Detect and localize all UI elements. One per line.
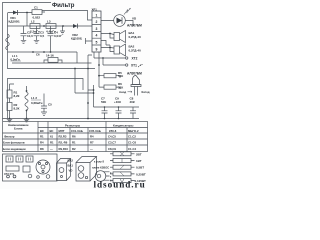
inductor L2 box: [30, 24, 40, 29]
capacitor C3: [34, 26, 40, 40]
svg-text:плате КЗВОС: плате КЗВОС: [92, 165, 109, 169]
svg-text:R2,R3: R2,R3: [59, 135, 67, 139]
svg-text:4: 4: [96, 34, 98, 38]
svg-text:40К: 40К: [130, 100, 135, 104]
transistor pinout drawing: [95, 171, 109, 182]
speaker cabinet big: [76, 163, 90, 182]
svg-text:С3,С7: С3,С7: [108, 141, 116, 145]
ground: [60, 26, 65, 34]
svg-text:С1: С1: [34, 6, 38, 10]
component pad: [16, 156, 23, 162]
svg-text:R7: R7: [90, 141, 94, 145]
svg-text:—: —: [50, 147, 53, 151]
power legend resistor 0.25W: [110, 172, 135, 176]
svg-text:2,2мГн: 2,2мГн: [30, 29, 40, 33]
svg-text:С1,С2: С1,С2: [128, 135, 136, 139]
svg-text:0,2ГД-40: 0,2ГД-40: [129, 35, 142, 39]
power legend resistor 0.5W: [110, 165, 135, 169]
svg-text:ХТ1 „+”: ХТ1 „+”: [131, 64, 143, 68]
capacitor C2: [21, 26, 27, 40]
svg-text:0,2ГД-40: 0,2ГД-40: [129, 49, 142, 53]
wire block1 lower rail: [12, 62, 92, 64]
wire L4 leads: [44, 60, 62, 63]
wire top inner: [10, 84, 15, 90]
mount hole: [37, 176, 40, 179]
svg-text:5: 5: [96, 41, 98, 45]
svg-text:к: к: [110, 175, 112, 178]
node dot: [43, 25, 45, 27]
speaker cabinet small: [57, 163, 67, 181]
LED arrows: [124, 8, 131, 15]
capacitor C7 flat: [6, 166, 19, 171]
table parts list: [3, 122, 148, 152]
resistor R6: [104, 85, 116, 89]
svg-text:R4: R4: [90, 135, 94, 139]
capacitor C5: [41, 94, 47, 113]
svg-text:0,25ВТ: 0,25ВТ: [136, 172, 146, 176]
ground left R chain: [7, 119, 12, 122]
svg-text:Анод: Анод: [119, 90, 126, 94]
diode VD1: [13, 10, 18, 15]
lower right bottom rail: [3, 118, 140, 120]
pin numbers: [96, 13, 98, 51]
resistor R5: [104, 74, 116, 78]
svg-text:С4,С5: С4,С5: [108, 135, 116, 139]
svg-text:МЛТ: МЛТ: [59, 129, 65, 133]
inductor L3 box: [46, 24, 56, 29]
svg-text:+10К: +10К: [114, 100, 121, 104]
svg-text:Блок индикации: Блок индикации: [3, 147, 26, 151]
svg-text:—: —: [90, 147, 93, 151]
svg-text:Конденсаторы: Конденсаторы: [113, 124, 134, 128]
svg-text:к узлу 8: к узлу 8: [94, 160, 104, 164]
svg-text:ВА2: ВА2: [68, 159, 74, 163]
node dots: [74, 68, 76, 70]
svg-text:0,68мГн: 0,68мГн: [31, 101, 43, 105]
terminal XT1: [103, 64, 125, 66]
svg-text:R1: R1: [72, 141, 76, 145]
svg-text:0,5ВТ: 0,5ВТ: [136, 166, 144, 170]
svg-text:0,5: 0,5: [40, 34, 45, 38]
svg-text:2: 2: [96, 20, 98, 24]
mount hole: [46, 175, 50, 179]
svg-text:R8: R8: [40, 147, 44, 151]
svg-text:14-16: 14-16: [46, 54, 54, 58]
ground: [21, 40, 26, 43]
component pad: [26, 156, 33, 162]
wire vertical x88 to pin: [88, 55, 92, 63]
wire block1 bottom border: [8, 63, 96, 69]
svg-text:9: 9: [96, 47, 98, 51]
terminal XT: [7, 175, 10, 178]
svg-text:0,5мГн: 0,5мГн: [11, 57, 20, 61]
wire rail C: [8, 51, 78, 53]
capacitor C7: [102, 107, 108, 119]
resistor R2 vertical: [7, 103, 12, 111]
svg-text:Фильтр: Фильтр: [4, 135, 15, 139]
power legend resistor 2W: [110, 152, 135, 156]
svg-text:VD: VD: [69, 169, 73, 173]
node A dot: [26, 12, 28, 14]
svg-text:1ВТ: 1ВТ: [136, 159, 142, 163]
frame outer border: [3, 3, 52, 122]
inductor L1b winding: [25, 86, 28, 119]
svg-text:8,2К: 8,2К: [14, 107, 20, 111]
PCB layout box: [3, 154, 58, 181]
mount hole: [28, 174, 32, 178]
svg-text:С1-С6: С1-С6: [128, 141, 137, 145]
wire to connector pin 1: [42, 11, 92, 21]
block 2 outline: [8, 79, 84, 119]
svg-text:ВА1: ВА1: [68, 164, 74, 168]
wire vertical x77: [76, 52, 78, 63]
component pad: [6, 156, 13, 162]
svg-text:Катод: Катод: [142, 90, 150, 94]
terminal bar left of connector: [86, 38, 93, 44]
wire rail B: [8, 25, 93, 27]
node dot: [62, 25, 64, 27]
LED VD circle: [114, 15, 126, 27]
svg-text:51К: 51К: [118, 74, 123, 78]
capacitor C9: [116, 107, 122, 119]
component pad: [23, 166, 30, 172]
inductor L4 box: [48, 58, 58, 63]
svg-text:R2: R2: [72, 147, 76, 151]
svg-text:R1: R1: [40, 135, 44, 139]
svg-text:8,2К: 8,2К: [14, 94, 20, 98]
svg-text:10,0: 10,0: [27, 34, 33, 38]
svg-text:С5: С5: [48, 103, 52, 107]
svg-text:ВС: ВС: [40, 129, 44, 133]
svg-text:R1: R1: [50, 141, 54, 145]
svg-text:КД105Б: КД105Б: [9, 20, 21, 24]
capacitor C8: [130, 107, 136, 119]
capacitor C1: [32, 10, 42, 15]
svg-text:С1-С4: С1-С4: [128, 147, 137, 151]
wire to LED: [101, 21, 133, 27]
ground: [34, 40, 39, 43]
ground under C5: [41, 112, 47, 116]
inductor L1 toroid: [36, 160, 50, 174]
power legend resistor 0.125W: [110, 179, 135, 183]
svg-text:1: 1: [96, 13, 98, 17]
svg-text:ХТ2: ХТ2: [132, 57, 138, 61]
svg-text:КД105Б: КД105Б: [71, 37, 83, 41]
svg-text:С01-ЗАБ: С01-ЗАБ: [71, 129, 83, 133]
power legend resistor 1W: [110, 159, 135, 163]
svg-text:61: 61: [50, 135, 54, 139]
svg-text:МБГО-2: МБГО-2: [128, 129, 139, 133]
svg-text:50К: 50К: [101, 100, 106, 104]
wires below connector: [94, 52, 99, 87]
svg-text:2ВТ: 2ВТ: [136, 152, 142, 156]
svg-text:0,047: 0,047: [54, 34, 62, 38]
wire rail A: [8, 12, 33, 14]
speaker BA1: [114, 33, 120, 41]
lower right top rail: [94, 106, 140, 108]
wires mid right: [75, 69, 94, 108]
wire x103 vertical: [87, 63, 89, 119]
terminal XT2: [94, 57, 125, 59]
svg-text:АЛ307БМ: АЛ307БМ: [127, 72, 142, 76]
inductor L1 winding on left edge: [6, 34, 10, 50]
wire node A down: [26, 13, 28, 27]
svg-text:С05-ЗАБ: С05-ЗАБ: [89, 129, 101, 133]
svg-text:Блок фильтров: Блок фильтров: [3, 141, 25, 145]
svg-text:С6: С6: [36, 53, 40, 57]
svg-text:R9,R10: R9,R10: [59, 147, 69, 151]
speaker BA2: [114, 46, 120, 54]
block Фильтр outline: [7, 13, 9, 63]
wire to BA2: [101, 45, 114, 52]
wire to BA1: [101, 34, 114, 46]
svg-text:R4: R4: [40, 141, 44, 145]
svg-text:L1 2: L1 2: [31, 96, 37, 100]
svg-text:Блока: Блока: [14, 127, 23, 131]
svg-text:ХТ2 ХТ1: ХТ2 ХТ1: [4, 172, 15, 176]
node dot: [50, 51, 52, 53]
resistor R1 vertical: [7, 90, 12, 98]
svg-text:Фильтр: Фильтр: [52, 3, 75, 9]
svg-text:С8,С9: С8,С9: [108, 147, 116, 151]
capacitor C4: [48, 26, 54, 52]
svg-text:R6: R6: [72, 135, 76, 139]
svg-text:L3: L3: [47, 20, 51, 24]
svg-text:К50-6: К50-6: [109, 129, 117, 133]
ground under coil: [24, 119, 29, 122]
svg-text:ldsound.ru: ldsound.ru: [94, 179, 146, 189]
svg-text:Резисторы: Резисторы: [65, 124, 81, 128]
svg-text:АЛ307БМ: АЛ307БМ: [127, 24, 142, 28]
svg-text:3: 3: [96, 27, 98, 31]
bottom drawings: [3, 154, 58, 181]
svg-text:R2,-R6: R2,-R6: [59, 141, 68, 145]
diode VD2: [73, 24, 78, 29]
svg-text:L2: L2: [31, 20, 35, 24]
svg-text:ВС: ВС: [50, 129, 54, 133]
svg-text:VD: VD: [132, 17, 137, 21]
